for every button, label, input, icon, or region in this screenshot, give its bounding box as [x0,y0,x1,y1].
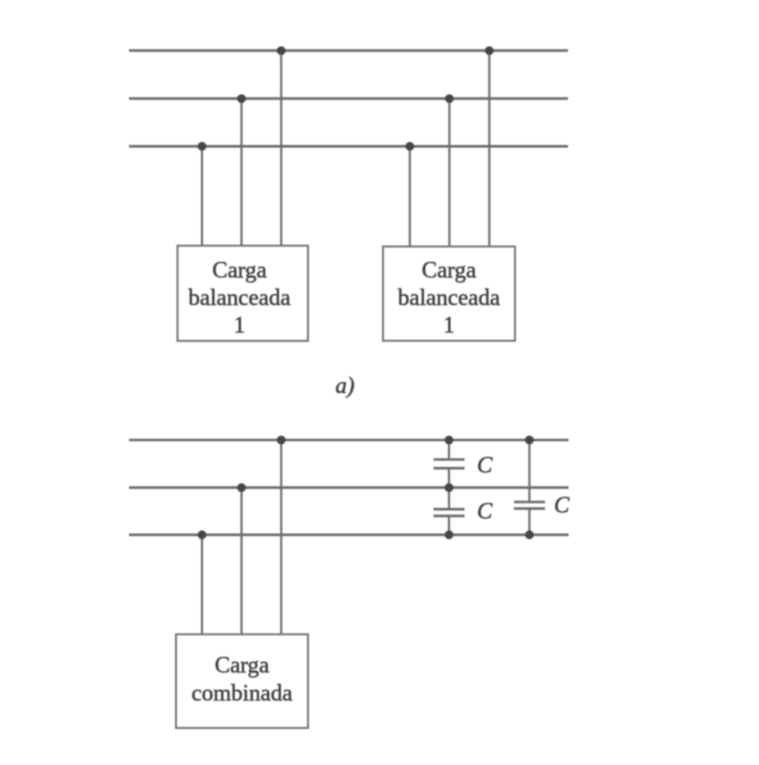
svg-text:Carga: Carga [212,257,267,282]
wire: load2 drop from line a [488,51,490,246]
svg-text:1: 1 [234,313,246,338]
junction: combined load on line a [277,436,286,445]
wire: phase line c (bottom section) [129,533,569,536]
load box: Carga balanceada 1 (left) [178,246,309,341]
wire: combined-load drop from line a [280,440,282,634]
junction: load1 on line c [198,142,207,151]
junction: combined load on line c [198,530,207,539]
wire: phase line a (top section) [129,49,568,52]
svg-text:a): a) [335,373,354,398]
capacitor C (between line a and line c) [514,440,545,535]
wire: load1 drop from line a [280,51,282,246]
svg-text:C: C [554,493,570,518]
svg-text:C: C [477,499,493,524]
wire: load1 drop from line c [201,146,203,246]
svg-text:balanceada: balanceada [398,285,500,310]
wire: load2 drop from line c [409,146,411,246]
junction: capacitor leg 1 on line b [445,483,454,492]
wire: load2 drop from line b [448,99,450,246]
svg-text:Carga: Carga [422,257,477,282]
junction: load1 on line b [237,94,246,103]
wire: load1 drop from line b [240,99,242,246]
junction: load2 on line b [445,94,454,103]
svg-text:combinada: combinada [192,681,293,706]
junction: capacitor leg 2 on line c [525,530,534,539]
svg-text:balanceada: balanceada [188,285,290,310]
svg-text:Carga: Carga [215,653,270,678]
load box: Carga combinada [176,634,308,728]
wire: combined-load drop from line b [240,488,242,635]
junction: load2 on line a [485,46,494,55]
svg-text:1: 1 [443,313,455,338]
wire: phase line b (bottom section) [129,486,569,489]
svg-text:C: C [477,452,493,477]
capacitor C (between line b and line c) [434,488,465,535]
junction: capacitor leg 1 on line c [445,530,454,539]
junction: combined load on line b [237,483,246,492]
capacitor C (between line a and line b) [434,440,465,488]
wire: phase line a (bottom section) [129,439,569,442]
load box: Carga balanceada 1 (right) [383,247,515,341]
wire: combined-load drop from line c [201,535,203,635]
junction: load1 on line a [277,46,286,55]
junction: capacitor leg 2 on line a [525,436,534,445]
junction: capacitor leg 1 on line a [445,436,454,445]
wire: phase line c (top section) [129,145,568,148]
wire: phase line b (top section) [129,97,568,100]
junction: load2 on line c [405,142,414,151]
